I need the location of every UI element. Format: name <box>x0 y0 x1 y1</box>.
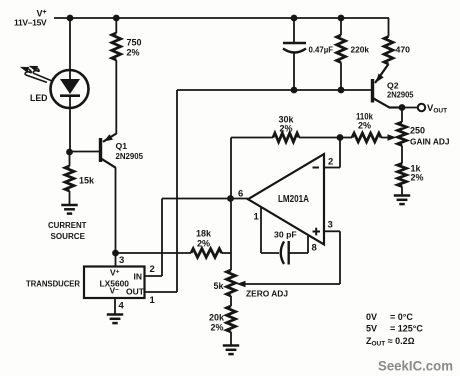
svg-text:IN: IN <box>134 272 143 282</box>
svg-text:2%: 2% <box>197 239 210 249</box>
svg-text:11V–15V: 11V–15V <box>14 18 47 28</box>
svg-text:ZERO ADJ: ZERO ADJ <box>246 289 288 299</box>
svg-text:SOURCE: SOURCE <box>51 231 86 241</box>
svg-text:18k: 18k <box>196 229 212 239</box>
svg-text:GAIN ADJ: GAIN ADJ <box>410 137 450 147</box>
svg-text:2%: 2% <box>211 323 224 333</box>
svg-text:4: 4 <box>119 301 125 312</box>
svg-text:OUT: OUT <box>126 287 145 297</box>
svg-text:3: 3 <box>119 255 124 266</box>
svg-text:2: 2 <box>150 264 155 275</box>
svg-text:SeekIC.com: SeekIC.com <box>378 358 453 374</box>
svg-text:2%: 2% <box>279 124 292 134</box>
svg-text:0V: 0V <box>366 312 377 322</box>
svg-text:= 0°C: = 0°C <box>390 312 413 322</box>
svg-text:2N2905: 2N2905 <box>116 151 144 161</box>
svg-text:470: 470 <box>396 45 411 55</box>
svg-text:1: 1 <box>150 295 156 306</box>
svg-text:8: 8 <box>312 243 317 254</box>
svg-text:5k: 5k <box>214 281 225 291</box>
svg-text:30 pF: 30 pF <box>274 230 297 240</box>
svg-text:6: 6 <box>238 189 243 200</box>
svg-text:2N2905: 2N2905 <box>387 89 414 99</box>
svg-text:220k: 220k <box>351 45 370 55</box>
svg-text:0.47µF: 0.47µF <box>309 45 334 55</box>
svg-text:2: 2 <box>328 157 333 168</box>
svg-text:15k: 15k <box>79 176 95 186</box>
svg-text:LED: LED <box>30 93 48 103</box>
svg-text:1: 1 <box>254 212 260 223</box>
svg-text:CURRENT: CURRENT <box>48 220 87 230</box>
svg-text:2%: 2% <box>127 48 140 58</box>
svg-text:Q1: Q1 <box>116 141 128 151</box>
svg-text:5V: 5V <box>366 324 377 334</box>
svg-text:20k: 20k <box>209 313 225 323</box>
svg-text:= 125°C: = 125°C <box>390 324 423 334</box>
svg-text:750: 750 <box>127 38 142 48</box>
svg-text:LM201A: LM201A <box>278 194 309 205</box>
svg-text:2%: 2% <box>358 120 371 130</box>
svg-text:250: 250 <box>410 126 425 136</box>
svg-text:3: 3 <box>328 220 333 231</box>
svg-text:TRANSDUCER: TRANSDUCER <box>26 279 81 289</box>
svg-text:2%: 2% <box>411 173 424 183</box>
